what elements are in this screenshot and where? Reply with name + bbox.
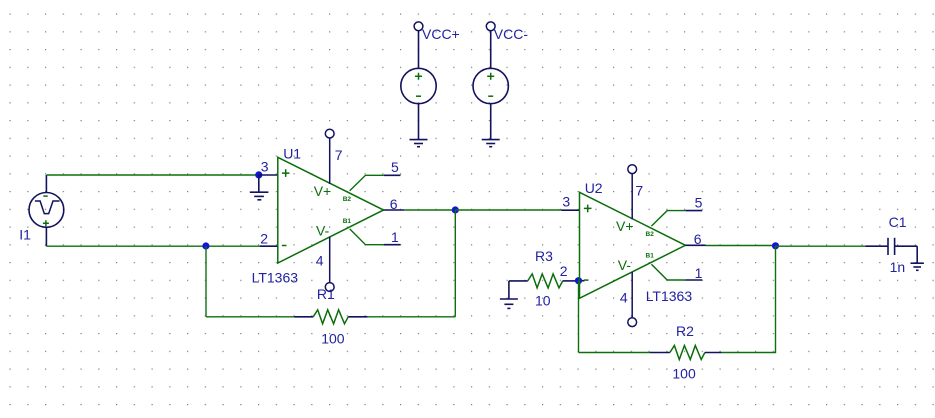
svg-text:6: 6 [390, 196, 398, 212]
svg-text:B1: B1 [343, 218, 352, 225]
wire U1 out to junction [404, 209, 455, 211]
U2 minus mark [584, 279, 589, 281]
svg-text:1: 1 [391, 229, 399, 245]
svg-text:VCC+: VCC+ [422, 26, 460, 42]
svg-text:4: 4 [620, 290, 628, 306]
svg-text:B1: B1 [646, 253, 655, 260]
ground of VCC+ [410, 140, 428, 147]
svg-text:R3: R3 [535, 248, 553, 264]
wire feedback bottom right [368, 316, 456, 318]
wire feedback left vertical [205, 246, 207, 317]
wire U2 out junction to C1 [776, 245, 866, 247]
svg-text:B2: B2 [646, 231, 655, 238]
svg-text:7: 7 [635, 183, 643, 199]
svg-text:LT1363: LT1363 [646, 288, 693, 304]
wire feedback bottom left [206, 316, 294, 318]
svg-text:V-: V- [618, 257, 632, 273]
U2 pin1 stub [651, 264, 685, 280]
op-amp U1 triangle [278, 157, 384, 263]
U1 pin4 wire and terminal [325, 237, 334, 292]
U1 pin7 wire and terminal [325, 129, 334, 184]
U2 pin4 wire and terminal [628, 272, 637, 327]
svg-text:5: 5 [695, 195, 703, 211]
U2 pin6 output stub [685, 244, 706, 246]
U1 pin5 stub [350, 175, 384, 191]
wire U2 feedback left vertical [578, 281, 580, 353]
resistor R2 [650, 352, 670, 354]
svg-text:1n: 1n [890, 259, 906, 275]
svg-text:6: 6 [694, 231, 702, 247]
wire R2 to output junction [722, 246, 776, 353]
svg-text:R2: R2 [676, 323, 694, 339]
node junction at U1 pin3 [255, 171, 262, 178]
resistor R1 [294, 316, 313, 318]
op-amp U2 triangle [580, 192, 686, 298]
svg-text:LT1363: LT1363 [252, 270, 299, 286]
node junction at inverting input of U2 [575, 277, 582, 284]
svg-text:3: 3 [261, 158, 269, 174]
U2 pin3 stub [562, 209, 580, 211]
svg-text:100: 100 [321, 331, 345, 347]
svg-text:I1: I1 [19, 227, 31, 243]
svg-text:R1: R1 [317, 286, 335, 302]
capacitor C1 [866, 238, 918, 263]
wire U2 out to junction [706, 245, 776, 247]
U1 plus mark [282, 169, 290, 177]
svg-text:C1: C1 [889, 214, 907, 230]
resistor R3 [509, 280, 528, 282]
U2 pin7 wire and terminal [628, 165, 637, 220]
svg-text:U2: U2 [585, 180, 603, 196]
source I1 [29, 175, 64, 246]
svg-text:V-: V- [316, 223, 330, 239]
wire U2 feedback bottom left [579, 352, 651, 354]
U2 pin2 stub [579, 280, 585, 282]
node junction U2 output [772, 242, 779, 249]
U1 minus mark [282, 245, 287, 247]
wire I1 bottom to node [46, 245, 259, 247]
svg-text:10: 10 [535, 293, 551, 309]
svg-text:100: 100 [672, 366, 696, 382]
wire I1 top to U1 pin3 [46, 174, 258, 176]
svg-text:V+: V+ [314, 183, 332, 199]
svg-text:5: 5 [391, 159, 399, 175]
svg-text:B2: B2 [343, 196, 352, 203]
svg-text:7: 7 [335, 147, 343, 163]
ground at C1 [911, 263, 924, 270]
voltage source VCC+ [401, 22, 436, 140]
svg-text:3: 3 [562, 194, 570, 210]
svg-text:4: 4 [316, 253, 324, 269]
ground of VCC- [482, 140, 500, 147]
U1 pin1 stub [350, 229, 384, 245]
svg-text:VCC-: VCC- [494, 26, 529, 42]
svg-text:V+: V+ [616, 218, 634, 234]
ground at U1 pin3 [250, 175, 269, 200]
wire feedback right vertical [454, 210, 456, 317]
U2 plus mark [584, 205, 592, 213]
U1 pin3 stub [259, 174, 278, 176]
svg-text:U1: U1 [283, 146, 301, 162]
node junction at inverting input of U1 [202, 242, 209, 249]
svg-text:2: 2 [560, 263, 568, 279]
svg-text:2: 2 [260, 231, 268, 247]
svg-text:1: 1 [695, 265, 703, 281]
U2 pin5 stub [651, 211, 685, 227]
U1 pin6 output stub [384, 209, 405, 211]
node junction U1 output [452, 206, 459, 213]
voltage source VCC- [473, 22, 508, 140]
wire U1 out junction to U2 pin3 [455, 209, 561, 211]
U1 pin2 stub [260, 245, 278, 247]
ground at R3 [500, 281, 518, 309]
